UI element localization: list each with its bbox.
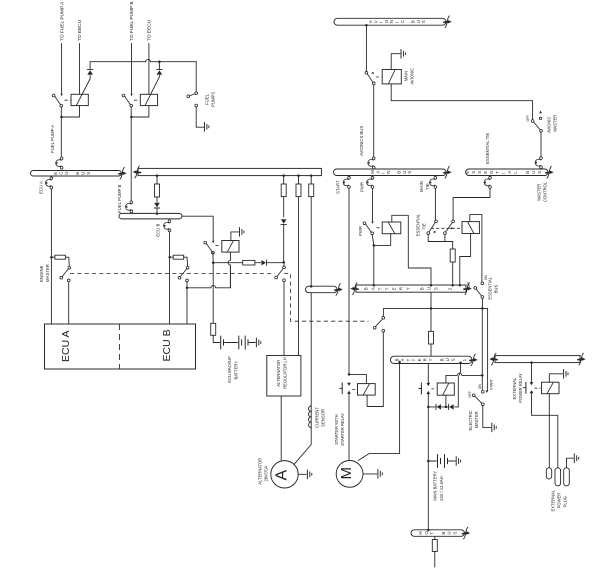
svg-text:ECU A: ECU A — [39, 181, 44, 194]
svg-text:E: E — [417, 358, 422, 361]
wire to main battery — [427, 407, 430, 462]
svg-text:TO FUEL PUMP B: TO FUEL PUMP B — [129, 1, 135, 41]
svg-text:N: N — [386, 171, 391, 174]
svg-text:ECU BACKUP: ECU BACKUP — [227, 356, 232, 383]
label MASTER CONTROL — [536, 181, 547, 202]
svg-text:A: A — [507, 171, 512, 174]
svg-text:BATTERY: BATTERY — [233, 361, 238, 380]
bus external power — [489, 353, 585, 365]
engine master pole 2 wire — [184, 257, 188, 266]
svg-text:MASTER: MASTER — [45, 264, 50, 282]
wire to backup battery — [213, 335, 219, 342]
svg-text:S: S — [407, 171, 412, 174]
wire START down — [348, 188, 350, 374]
wire bus1 to battery relay — [427, 364, 429, 384]
diode column mid — [154, 203, 160, 215]
breaker FUEL PUMP A — [55, 157, 63, 169]
svg-text:A: A — [273, 470, 290, 481]
dash link backup relay — [216, 245, 222, 247]
svg-text:STARTER RELAY: STARTER RELAY — [340, 413, 345, 446]
svg-text:B: B — [439, 358, 444, 361]
svg-text:ENGINE: ENGINE — [39, 265, 44, 282]
label STARTER WITH STARTER RELAY — [334, 413, 345, 446]
bus AVIONIC BUS — [334, 16, 452, 28]
engine master pole 2 resistor — [170, 255, 184, 259]
bus BATTERY BUS 1 — [390, 354, 477, 366]
main avionic coil bottom route — [391, 84, 532, 120]
fuse hot bus — [432, 536, 437, 551]
wire ECU A down — [50, 189, 53, 324]
label FUEL PUMPS — [204, 92, 215, 107]
ground alternator — [298, 470, 312, 479]
pwr output wires — [372, 234, 391, 285]
wire diode to column1 — [267, 261, 285, 264]
diode battery 1 — [428, 404, 441, 409]
svg-text:H: H — [418, 531, 423, 534]
wire pole2 branch to relay coil — [187, 265, 230, 288]
svg-text:ELECTRIC: ELECTRIC — [468, 410, 473, 430]
svg-text:ECU A: ECU A — [60, 330, 72, 362]
label FUEL PUMP A — [50, 125, 55, 153]
external power contactor — [523, 382, 533, 393]
diode return wire — [458, 364, 460, 407]
svg-text:R: R — [399, 287, 404, 290]
avionic master switch — [531, 111, 542, 132]
wire fuse to bus2 — [452, 262, 454, 285]
svg-text:24V / 13.6AH: 24V / 13.6AH — [439, 476, 444, 500]
bus break mark ECU BUS right — [119, 167, 127, 179]
wire sensor to alternator — [294, 428, 311, 465]
dash link A — [65, 99, 71, 101]
wire to fuel pump A with label — [59, 1, 65, 94]
svg-text:B: B — [420, 287, 425, 290]
backup relay coil — [222, 241, 239, 253]
dash link pwr — [376, 227, 381, 229]
svg-text:E: E — [53, 172, 58, 175]
ess tie tie-bar wire — [428, 235, 453, 250]
svg-text:TO FUEL PUMP A: TO FUEL PUMP A — [59, 1, 65, 41]
fuse column mid — [155, 174, 160, 202]
label ESSENTIAL TIE wire — [485, 133, 490, 164]
relay coil ESSENTIAL TIE — [462, 222, 479, 234]
svg-text:U: U — [445, 358, 450, 361]
svg-text:ALTERNATOR: ALTERNATOR — [258, 458, 263, 485]
box ECU A and ECU B — [45, 324, 196, 369]
wire to EECU 2 with label — [147, 19, 153, 94]
ground main avionic — [401, 49, 405, 58]
battery relay coil top route — [446, 373, 484, 383]
svg-text:U: U — [64, 172, 69, 175]
ess tie pole 2 — [444, 220, 455, 234]
svg-text:N: N — [489, 171, 494, 174]
svg-text:U: U — [81, 172, 86, 175]
breaker avionics bus — [367, 157, 375, 169]
ext contact output to pin2 — [532, 393, 558, 467]
fuse battery tie — [429, 331, 434, 344]
label FUEL PUMP B — [117, 184, 122, 213]
svg-text:MAIN BATTERY: MAIN BATTERY — [433, 471, 438, 501]
svg-text:Y: Y — [428, 358, 433, 361]
ext relay coil bottom to pin1 — [548, 394, 550, 468]
engine master pole 3 — [275, 264, 286, 282]
wire relay output — [427, 394, 430, 408]
breaker MAIN TIE — [429, 176, 437, 188]
wire fuse to bus1 — [430, 344, 432, 356]
ground ext relay — [564, 369, 568, 378]
svg-text:FUEL: FUEL — [204, 93, 209, 105]
svg-text:EXTERNAL: EXTERNAL — [512, 377, 517, 399]
wire ess bus switch down — [481, 298, 483, 308]
svg-text:S: S — [452, 532, 457, 535]
label START — [335, 180, 340, 194]
svg-text:TO EECU: TO EECU — [147, 19, 153, 41]
fuel pump A relay contact — [52, 94, 63, 107]
svg-text:B: B — [441, 532, 446, 535]
wire starter to motor — [348, 394, 350, 461]
svg-text:C: C — [400, 20, 405, 23]
svg-text:CONTROL: CONTROL — [542, 181, 547, 202]
wire to fuel pump B with label — [129, 1, 135, 93]
alternator circle — [271, 461, 298, 488]
label PWR breaker — [359, 182, 364, 192]
relay coil MAIN AVIONIC — [382, 70, 401, 84]
bus BATTERY BUS 2 — [350, 283, 471, 295]
svg-text:STARTER WITH: STARTER WITH — [334, 414, 339, 444]
fuel pumps switch — [187, 92, 198, 107]
label ECU A breaker — [39, 181, 44, 194]
breaker FUEL PUMP B — [125, 201, 133, 213]
box alternator regulator — [267, 356, 301, 397]
dash link ext relay — [535, 387, 541, 389]
relay coil MAIN BATTERY — [437, 383, 454, 395]
label ELECTRIC MASTER — [468, 410, 479, 430]
pwr coil top route — [392, 215, 431, 285]
svg-text:EXTERNAL: EXTERNAL — [551, 489, 556, 511]
svg-text:R: R — [423, 358, 428, 361]
svg-text:B: B — [525, 171, 530, 174]
svg-text:PWR: PWR — [359, 182, 364, 192]
starter coil top route — [348, 373, 367, 383]
current sensor coil — [309, 406, 312, 428]
breaker avionic master — [534, 157, 542, 169]
ess tie pole 1 — [427, 220, 438, 234]
svg-text:ECU B: ECU B — [161, 329, 173, 361]
svg-text:I: I — [501, 173, 506, 174]
ground main battery — [456, 457, 460, 466]
relay A coil bottom wire — [63, 106, 80, 117]
diode battery 2 — [442, 404, 459, 409]
horizontal essential feed — [384, 307, 488, 310]
label AVIONIC MASTER — [546, 115, 557, 133]
bus HOT BUS — [411, 527, 470, 539]
svg-text:M: M — [370, 170, 375, 174]
wire essential tie route — [453, 188, 490, 220]
wire contact to breaker B — [130, 107, 133, 201]
svg-text:PWR: PWR — [358, 226, 363, 236]
link wire to fuse diode — [213, 262, 243, 264]
wire PWR down — [372, 188, 374, 221]
label ESSENTIAL TIE relay — [416, 213, 427, 236]
svg-text:REGULATOR LH: REGULATOR LH — [283, 357, 288, 389]
svg-text:A: A — [371, 287, 376, 290]
svg-text:CURRENT: CURRENT — [315, 407, 320, 428]
label ALTERNATOR 28V/70A — [258, 458, 269, 485]
dash link main avionic — [376, 76, 382, 78]
horizontal feed wire with hop — [90, 59, 196, 61]
starter cable — [358, 364, 399, 461]
bus ECU BUS — [31, 171, 122, 177]
wire START electric master — [486, 308, 489, 393]
wire from contact to breaker — [60, 107, 63, 157]
wire to ground fuel pumps — [196, 107, 203, 127]
relay B coil bottom wire — [132, 106, 149, 117]
label ALTERNATOR REGULATOR LH — [276, 357, 288, 389]
wire bus2 to fuse — [430, 292, 432, 331]
wire MAIN TIE down — [434, 188, 436, 220]
ext relay ground route — [549, 374, 562, 382]
svg-text:T: T — [406, 358, 411, 361]
svg-text:PUMPS: PUMPS — [210, 92, 215, 107]
label PWR switch — [358, 226, 363, 236]
starter motor — [336, 461, 363, 488]
label OFF avionic master — [526, 115, 530, 121]
wire to EECU 1 with label — [77, 19, 83, 94]
ground wire main avionic — [391, 54, 400, 70]
wire ECU B down — [168, 232, 171, 324]
bus ECU bar2 — [119, 213, 182, 219]
svg-text:BUS: BUS — [493, 285, 498, 294]
svg-text:ESSENTIAL TIE: ESSENTIAL TIE — [485, 133, 490, 164]
breaker START — [342, 176, 350, 188]
label START electric master — [490, 379, 494, 390]
starter relay contactor — [340, 383, 351, 394]
wire below hot bus fuse — [434, 552, 436, 568]
svg-text:M: M — [338, 467, 355, 480]
junction dot diode 2 — [158, 60, 161, 63]
svg-text:B: B — [75, 172, 80, 175]
fuel pumps switch wire — [195, 62, 197, 92]
breaker ECU B — [163, 220, 171, 232]
wire pole3 to regulator — [283, 282, 285, 356]
svg-text:OFF: OFF — [467, 282, 471, 288]
dash link battery relay — [431, 388, 436, 390]
relay coil PWR — [382, 222, 401, 234]
svg-text:A: A — [400, 358, 405, 361]
svg-text:T: T — [411, 358, 416, 361]
svg-text:S: S — [86, 172, 91, 175]
ground backup relay — [240, 228, 244, 237]
svg-text:E: E — [483, 171, 488, 174]
svg-text:U: U — [447, 531, 452, 534]
svg-text:POWER RELAY: POWER RELAY — [518, 373, 523, 403]
diode backup link — [261, 260, 266, 265]
relay B diagonal to diode — [145, 77, 159, 105]
svg-text:V: V — [373, 20, 378, 23]
ess tie gang dash — [431, 227, 462, 233]
svg-text:TO EECU: TO EECU — [77, 19, 83, 41]
ground electric master — [492, 423, 496, 432]
wire ON electric master — [481, 308, 484, 393]
svg-text:OFF: OFF — [468, 391, 472, 397]
external plug pin 2 — [555, 468, 561, 486]
label ON ess bus — [484, 275, 488, 280]
breaker PWR — [366, 176, 374, 188]
engine master pole 1 resistor — [51, 255, 65, 259]
external plug pin 3 — [564, 468, 570, 486]
dash link starter — [352, 389, 356, 391]
fuse backup battery — [211, 323, 216, 335]
ground starter motor — [363, 470, 382, 479]
label MAIN AVIONIC — [403, 68, 414, 85]
svg-text:T: T — [378, 287, 383, 290]
fuse column 2 — [296, 174, 301, 355]
ess gang switch — [373, 308, 384, 332]
main avionic relay contact — [365, 71, 375, 84]
svg-text:U: U — [427, 287, 432, 290]
battery relay coil bottom pin — [445, 395, 448, 408]
relay coil fuel pump B — [140, 94, 157, 105]
svg-text:FUEL PUMP A: FUEL PUMP A — [50, 125, 55, 153]
svg-text:ON: ON — [478, 384, 482, 389]
external plug pin 1 — [546, 468, 551, 479]
svg-text:MAIN: MAIN — [403, 71, 408, 81]
label ON electric master — [478, 384, 482, 389]
bus ESSENTIAL BUS — [465, 166, 554, 178]
engine master pole 2 — [178, 266, 189, 281]
fuse column 3 — [309, 174, 314, 286]
bus break mark ECU continuation left — [133, 166, 141, 178]
svg-text:28V/70A: 28V/70A — [264, 466, 269, 482]
relay coil STARTER — [358, 384, 376, 396]
main battery contactor — [419, 383, 430, 394]
svg-text:Y: Y — [406, 287, 411, 290]
bus MAIN BUS — [334, 166, 452, 178]
svg-text:ALTERNATOR: ALTERNATOR — [276, 360, 281, 387]
wire avionics bus to main bus — [373, 85, 375, 157]
svg-text:ESSENTIAL: ESSENTIAL — [416, 213, 421, 236]
essential bus switch — [474, 282, 484, 299]
svg-text:START: START — [490, 379, 494, 390]
svg-text:B: B — [395, 358, 400, 361]
wire pole1 to ECU A box — [68, 282, 70, 324]
svg-text:FUEL PUMP B: FUEL PUMP B — [117, 184, 122, 213]
svg-text:C: C — [59, 172, 64, 175]
label ECU B breaker — [156, 224, 161, 237]
svg-text:U: U — [416, 20, 421, 23]
svg-text:E: E — [465, 171, 470, 174]
label EXTERNAL POWER RELAY — [512, 373, 523, 403]
wire regulator to alternator — [280, 396, 282, 461]
label AVIONICS BUS — [359, 126, 364, 156]
wire backup feed down — [212, 252, 215, 324]
svg-text:U: U — [402, 171, 407, 174]
battery ECU backup — [221, 336, 256, 349]
svg-text:A: A — [368, 20, 373, 23]
starter coil bottom route — [367, 395, 383, 406]
svg-text:S: S — [477, 171, 482, 174]
ground fuel pumps — [205, 122, 209, 131]
svg-text:START: START — [335, 180, 340, 194]
gang dashed line engine master — [70, 273, 369, 321]
svg-text:N: N — [389, 20, 394, 23]
wire avionic master to breaker — [540, 132, 542, 157]
svg-text:ECU B: ECU B — [156, 224, 161, 237]
svg-text:I: I — [395, 22, 400, 23]
svg-text:S: S — [451, 358, 456, 361]
relay coil EXTERNAL POWER — [542, 382, 560, 394]
svg-text:B: B — [364, 287, 369, 290]
diode D2 — [157, 62, 163, 77]
relay coil fuel pump A — [71, 94, 88, 105]
pin 3 ground wire — [567, 458, 574, 468]
label ECU A — [60, 330, 72, 362]
label OFF ess bus — [467, 282, 471, 288]
svg-text:MASTER: MASTER — [536, 184, 541, 201]
wire pole2 to ECU B box — [186, 282, 189, 324]
label ECU B — [161, 329, 173, 361]
svg-text:S: S — [537, 171, 542, 174]
svg-text:AVIONIC: AVIONIC — [409, 68, 414, 85]
label EXTERNAL POWER PLUG — [551, 489, 568, 511]
svg-text:S: S — [421, 20, 426, 23]
wire fuse to diode — [255, 262, 261, 264]
label MAIN TIE — [419, 181, 430, 192]
svg-text:T: T — [385, 287, 390, 290]
wire battery to hot bus — [427, 461, 429, 530]
ess tie coil top route — [470, 215, 482, 282]
svg-text:ESSENTIAL: ESSENTIAL — [487, 276, 492, 299]
label OFF electric master — [468, 391, 472, 397]
wire alternator feed — [310, 293, 312, 406]
svg-text:S: S — [471, 171, 476, 174]
ground external plug — [574, 454, 578, 463]
wire avionic bus down — [365, 24, 368, 71]
svg-text:A: A — [375, 171, 380, 174]
svg-text:E: E — [392, 287, 397, 290]
svg-text:MASTER: MASTER — [552, 115, 557, 132]
svg-text:T: T — [495, 171, 500, 174]
svg-text:MASTER: MASTER — [474, 411, 479, 428]
svg-text:S: S — [434, 287, 439, 290]
wire bar2 to backup relay — [182, 216, 213, 241]
bus alternator bar — [306, 284, 343, 296]
diode D1 — [87, 62, 93, 79]
breaker ESSENTIAL TIE — [483, 176, 491, 188]
backup relay contact — [204, 241, 215, 254]
fuse column 1 — [281, 174, 286, 217]
breaker ECU A — [45, 177, 53, 189]
svg-text:B: B — [410, 20, 415, 23]
ground backup battery — [256, 338, 260, 347]
svg-text:T: T — [430, 532, 435, 535]
electric master switch — [472, 394, 484, 406]
svg-text:TIE: TIE — [422, 223, 427, 230]
svg-text:TIE: TIE — [425, 183, 430, 190]
wire gang switch down — [382, 332, 384, 406]
battery MAIN — [428, 455, 455, 468]
relay A diagonal to diode — [77, 79, 91, 105]
engine master pole 1 wire — [65, 257, 69, 266]
svg-text:U: U — [531, 171, 536, 174]
svg-text:OFF: OFF — [526, 115, 530, 121]
label ECU BACKUP BATTERY — [227, 356, 238, 383]
label MAIN BATTERY — [433, 471, 444, 501]
engine master pole 1 — [60, 266, 71, 281]
svg-text:AVIONICS BUS: AVIONICS BUS — [359, 126, 364, 156]
ess tie coil bottom route — [460, 234, 471, 285]
diode column 1 — [281, 219, 287, 262]
svg-text:AVIONIC: AVIONIC — [546, 116, 551, 133]
